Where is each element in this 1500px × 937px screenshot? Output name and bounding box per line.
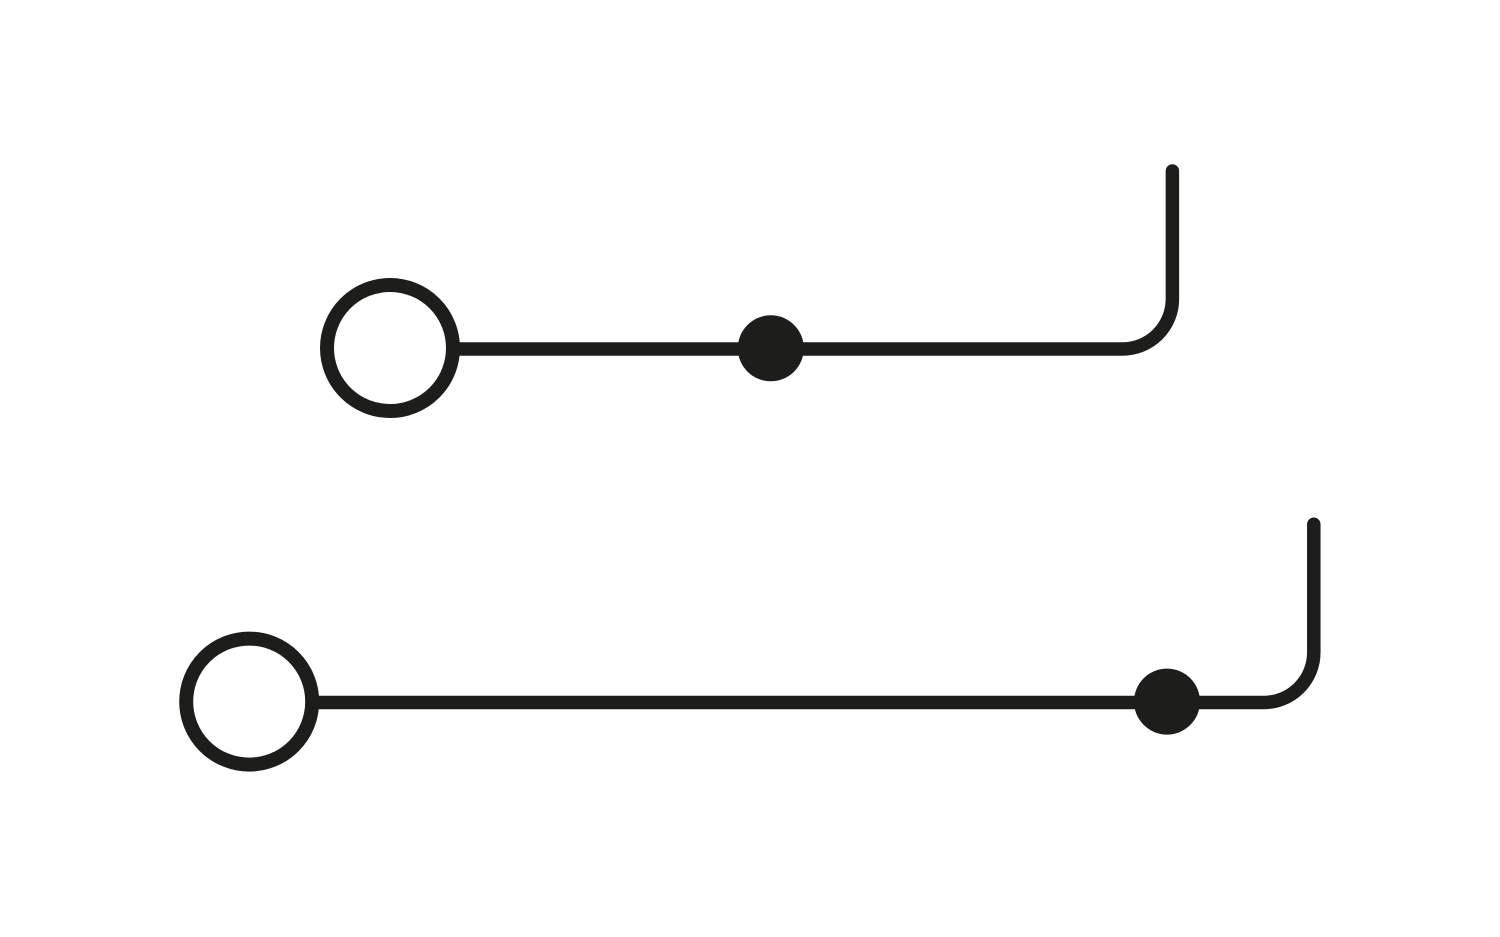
terminal clamp circle (lower, unconnected contact): [186, 639, 312, 765]
wire (lower horizontal conductor with bend up to busbar): [315, 524, 1314, 702]
terminal circuit 1 (upper level): [327, 171, 1172, 411]
terminal clamp circle (upper, unconnected contact): [327, 285, 453, 411]
wire (upper horizontal conductor with bend up to busbar): [456, 171, 1172, 349]
junction node (lower tap point): [1134, 669, 1200, 735]
junction node (upper tap point): [738, 315, 804, 381]
terminal circuit 2 (lower level): [186, 524, 1314, 764]
